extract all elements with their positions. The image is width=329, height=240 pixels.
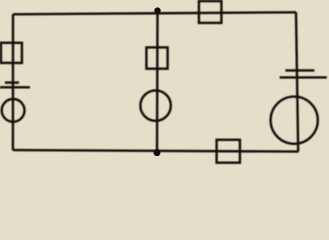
wire left edge [12, 14, 15, 150]
wire bottom edge [13, 150, 298, 152]
resistor R4 [217, 140, 240, 163]
resistor R3 [199, 1, 222, 23]
battery cell B1 short plate [5, 81, 19, 83]
wire right edge [296, 12, 298, 151]
battery cell B1 long plate [0, 86, 30, 88]
meter A3 [271, 97, 318, 144]
node top junction [154, 7, 160, 13]
wire middle branch [156, 12, 159, 153]
resistor R2 [146, 47, 167, 68]
battery cell B2 short plate [285, 69, 314, 71]
battery cell B2 long plate [280, 76, 327, 78]
meter A1 [2, 99, 25, 122]
resistor R1 [1, 43, 22, 63]
wire top edge [13, 12, 296, 14]
meter A2 [140, 90, 170, 120]
node bottom junction [154, 149, 161, 156]
